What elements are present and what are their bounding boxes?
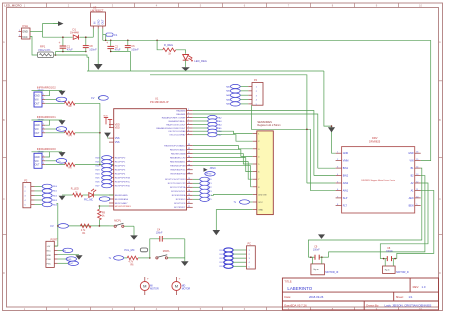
svg-text:MOTOR: MOTOR [182, 289, 191, 291]
svg-text:16: 16 [188, 182, 190, 184]
ground R_LED [59, 196, 66, 201]
svg-text:+: + [106, 41, 108, 45]
svg-text:RD6/PSP6/P1C: RD6/PSP6/P1C [115, 182, 131, 184]
wire driver AIN2 [307, 182, 336, 184]
switch MCPL1 [110, 220, 135, 236]
svg-text:RD3/PSP3: RD3/PSP3 [115, 170, 126, 172]
svg-text:2: 2 [188, 109, 189, 111]
svg-text:22: 22 [188, 206, 190, 208]
sensor output bus vertical [99, 103, 114, 165]
connector SENSORES [253, 120, 281, 215]
net flag 7v pulmc [109, 256, 128, 260]
svg-text:DRV8825 Stepper Motor Driver C: DRV8825 Stepper Motor Driver Carrie [361, 179, 396, 182]
svg-text:15: 15 [188, 178, 190, 180]
svg-text:RC6/TX/CK: RC6/TX/CK [174, 203, 186, 205]
svg-text:RC1/T1OSI/CCP2: RC1/T1OSI/CCP2 [168, 183, 187, 185]
svg-text:OUT: OUT [35, 133, 40, 135]
svg-text:RB6/KBI2/PGC: RB6/KBI2/PGC [171, 170, 186, 172]
svg-text:MOTOR: MOTOR [150, 289, 159, 291]
wire MCLR pulldown row [69, 225, 110, 227]
LED D_ON [89, 189, 114, 198]
svg-text:1: 1 [25, 187, 26, 189]
svg-text:OUT: OUT [35, 165, 40, 167]
driver U2 body [342, 147, 415, 213]
svg-text:RC5/SDO: RC5/SDO [176, 199, 186, 201]
svg-text:P2: P2 [24, 178, 28, 182]
svg-text:5: 5 [25, 205, 26, 207]
svg-text:12: 12 [416, 182, 418, 184]
svg-text:OSC2/CLKO/RA6: OSC2/CLKO/RA6 [168, 130, 186, 133]
wire RP1 to ground rail [54, 54, 89, 71]
svg-text:JPGC: JPGC [210, 167, 217, 170]
net flag PGD [58, 257, 77, 261]
svg-text:RE2/CS/AN7: RE2/CS/AN7 [115, 202, 129, 205]
net flag 7v sensores [234, 200, 253, 204]
resistor R1 [80, 224, 91, 235]
svg-text:1: 1 [43, 155, 44, 157]
svg-text:LABERINTO: LABERINTO [287, 286, 312, 291]
svg-text:AIN1: AIN1 [343, 189, 349, 192]
ground PORT [58, 255, 83, 260]
wires MCU ports to SENSORES [193, 131, 253, 187]
node P2 flags [35, 184, 58, 207]
svg-text:1: 1 [43, 124, 44, 126]
svg-text:RA0/AN0: RA0/AN0 [176, 109, 186, 112]
svg-text:BIN2: BIN2 [343, 175, 349, 178]
svg-text:1: 1 [249, 250, 250, 252]
svg-text:MCPL: MCPL [163, 250, 171, 253]
svg-text:PC: PC [248, 243, 252, 246]
svg-text:RD4/PSP4: RD4/PSP4 [115, 174, 126, 176]
svg-text:FV: FV [51, 225, 55, 228]
svg-text:RA3/AN3/VREF+: RA3/AN3/VREF+ [169, 120, 187, 123]
svg-text:PUL_MC: PUL_MC [124, 249, 134, 252]
svg-text:R_REG: R_REG [164, 43, 173, 47]
svg-text:Date:: Date: [284, 295, 291, 299]
svg-text:VMM: VMM [343, 160, 349, 163]
svg-text:PGD: PGD [47, 259, 52, 261]
svg-text:27: 27 [188, 168, 190, 170]
svg-text:2: 2 [19, 35, 20, 37]
svg-text:100nF: 100nF [313, 249, 320, 252]
svg-text:GND: GND [408, 152, 414, 155]
connector PC [247, 243, 256, 269]
svg-text:FLT: FLT [343, 204, 348, 207]
svg-text:OSC1/CLKI/RA7: OSC1/CLKI/RA7 [169, 134, 186, 137]
svg-text:MI: MI [150, 286, 153, 288]
svg-text:RB0/INT0/FLT0/AN12: RB0/INT0/FLT0/AN12 [164, 144, 186, 147]
svg-text:R_LED: R_LED [71, 188, 79, 191]
svg-text:31: 31 [188, 152, 190, 154]
capacitor C9 100nF [308, 246, 328, 260]
capacitor C6 100nF [125, 40, 139, 51]
svg-text:IN: IN [94, 21, 97, 24]
net flag FV port [58, 248, 73, 252]
LED LED_REG [183, 55, 207, 64]
svg-text:RE0/RD/AN5: RE0/RD/AN5 [115, 194, 129, 197]
svg-text:Drawn By:: Drawn By: [366, 304, 379, 308]
svg-text:5: 5 [256, 104, 257, 106]
svg-text:GND: GND [35, 157, 40, 159]
svg-text:GND: GND [22, 31, 28, 34]
svg-text:VCC: VCC [22, 36, 27, 39]
svg-text:GND: GND [98, 19, 101, 25]
svg-text:9: 9 [416, 204, 417, 206]
connector MOTOR_D [383, 259, 409, 274]
svg-text:LED_MICRO: LED_MICRO [4, 3, 22, 7]
svg-text:16: 16 [416, 152, 418, 154]
svg-text:D: D [3, 271, 5, 275]
net flag JPGC [204, 167, 217, 172]
wire input rail [43, 36, 94, 38]
wire U3 GND down [97, 29, 99, 65]
driver U2 DRV8825 label [369, 136, 381, 143]
power flag VDD [103, 115, 112, 127]
MCU U1 body [114, 109, 187, 210]
wire driver A1 [397, 190, 434, 258]
capacitor C8 100nF [83, 36, 97, 52]
svg-text:7: 7 [337, 196, 338, 198]
ground MCPL1 [130, 235, 138, 239]
svg-text:100nF: 100nF [89, 47, 97, 51]
drawnby text [366, 304, 431, 308]
svg-text:P1A: P1A [23, 24, 29, 28]
svg-text:6: 6 [337, 189, 338, 191]
svg-text:MCPL: MCPL [114, 220, 122, 223]
resistor R9 [98, 206, 106, 226]
net flag FV sensor2 [91, 96, 108, 101]
connector MOTOR_IZ [311, 257, 339, 275]
net flag JPGD [205, 172, 215, 176]
svg-text:2: 2 [43, 127, 44, 129]
svg-text:M: M [143, 284, 146, 289]
svg-text:9: 9 [188, 133, 189, 135]
wire driver B1 [308, 168, 421, 257]
svg-text:AIN2: AIN2 [343, 182, 349, 185]
svg-text:RA4/T0CKI/C1OUT: RA4/T0CKI/C1OUT [166, 123, 186, 126]
svg-text:1: 1 [337, 152, 338, 154]
svg-text:SLP: SLP [343, 197, 348, 200]
svg-text:3: 3 [337, 167, 338, 169]
MCU port C pins [165, 178, 193, 209]
connector P2 [23, 178, 35, 207]
svg-text:21: 21 [188, 202, 190, 204]
diode D1 [70, 27, 79, 39]
svg-text:3: 3 [249, 258, 250, 260]
wire U3 IN [92, 29, 94, 38]
svg-text:Hy-m: Hy-m [314, 269, 319, 271]
svg-text:2018-09-26: 2018-09-26 [309, 295, 324, 299]
capacitor C8b 100nF [380, 247, 397, 261]
wire LED ON [211, 193, 253, 196]
svg-text:32: 32 [188, 148, 190, 150]
svg-text:2: 2 [25, 191, 26, 193]
svg-text:RB3/AN9/CCP2: RB3/AN9/CCP2 [170, 157, 186, 160]
svg-text:1: 1 [256, 87, 257, 89]
MCU port A pins [156, 109, 192, 137]
svg-text:8: 8 [337, 204, 338, 206]
svg-text:100nF: 100nF [131, 47, 139, 51]
svg-text:OUT: OUT [102, 19, 105, 25]
wire P2 to PORT [57, 204, 59, 247]
ground MCPL2 [181, 261, 189, 266]
net flag PGC [58, 261, 79, 265]
net flag FV mclr [51, 224, 69, 229]
svg-text:+: + [59, 41, 61, 45]
svg-text:C: C [439, 197, 441, 201]
svg-text:RC3/SCK/SCL: RC3/SCK/SCL [171, 191, 186, 193]
svg-text:1.0: 1.0 [422, 285, 426, 289]
svg-text:RC7/RX/DT: RC7/RX/DT [174, 207, 186, 209]
IR sensor module INFRARROJO0 [32, 147, 100, 170]
ground for regulator [94, 64, 103, 70]
svg-text:2: 2 [43, 98, 44, 100]
svg-text:JPGD: JPGD [206, 174, 212, 176]
wire MCLR [99, 205, 109, 207]
svg-text:C: C [3, 197, 5, 201]
ground motor rail [318, 234, 325, 239]
svg-text:RB7/KBI3/PGD: RB7/KBI3/PGD [171, 174, 186, 176]
svg-text:19: 19 [188, 194, 190, 196]
wire LED to ground [185, 60, 187, 67]
svg-text:A: A [439, 40, 441, 44]
svg-text:VDG/1.6%: VDG/1.6% [38, 48, 51, 52]
svg-text:2: 2 [249, 254, 250, 256]
varistor RP1 [38, 45, 54, 58]
wire driver B2 [329, 176, 425, 258]
svg-text:D: D [439, 271, 441, 275]
MCU power pins [109, 123, 120, 144]
sheet text [396, 295, 413, 299]
regulator U3 LM7805CT [91, 6, 106, 29]
svg-text:PGC: PGC [47, 263, 52, 265]
svg-text:14: 14 [416, 167, 418, 169]
node PC flags [219, 248, 246, 268]
svg-text:8: 8 [188, 130, 189, 132]
svg-text:LED ON: LED ON [258, 194, 267, 196]
net port arrow [53, 21, 64, 26]
svg-text:AEN: AEN [409, 197, 414, 200]
svg-text:VSS: VSS [115, 137, 120, 140]
svg-text:PIC_MC: PIC_MC [84, 199, 93, 202]
driver U2 pins [336, 152, 421, 208]
ground flag VSS [104, 133, 111, 139]
svg-text:3: 3 [188, 113, 189, 115]
svg-text:Lady, JEISON, CRISTIAN DENNISS: Lady, JEISON, CRISTIAN DENNISS [385, 304, 432, 308]
svg-text:RB4/KBI0/AN11: RB4/KBI0/AN11 [170, 161, 186, 164]
MCU MCLR pin [109, 206, 132, 208]
wire P1A VCC to RP1 [30, 37, 38, 56]
svg-text:RD5/PSP5/P1B: RD5/PSP5/P1B [115, 178, 131, 180]
svg-text:4: 4 [188, 116, 189, 118]
svg-text:15: 15 [416, 159, 418, 161]
svg-text:11: 11 [416, 189, 418, 191]
svg-text:1: 1 [43, 94, 44, 96]
svg-text:28: 28 [188, 164, 190, 166]
title block grid [282, 278, 438, 310]
svg-text:5: 5 [337, 182, 338, 184]
title text [284, 279, 312, 290]
svg-text:GND: GND [343, 152, 349, 155]
wire C2 C6 ground [110, 51, 131, 71]
node RA flags [193, 115, 223, 136]
svg-text:26: 26 [188, 172, 190, 174]
connector P4 [248, 79, 263, 106]
svg-text:M: M [175, 284, 178, 289]
net flag PIC_MC [84, 197, 110, 202]
svg-text:4: 4 [337, 174, 338, 176]
node RC flags [193, 177, 213, 201]
wire driver BIN2 [314, 175, 336, 177]
svg-text:VCC: VCC [258, 202, 263, 204]
svg-text:4: 4 [256, 100, 257, 102]
svg-text:RD2/PSP2: RD2/PSP2 [115, 166, 126, 168]
svg-text:VIN: VIN [35, 161, 39, 163]
MCU port B pins [164, 144, 192, 176]
svg-text:A: A [3, 40, 5, 44]
connector P1A [19, 24, 31, 39]
svg-text:U1: U1 [155, 97, 159, 101]
svg-text:1N4448: 1N4448 [70, 32, 79, 35]
svg-text:18: 18 [188, 190, 190, 192]
fuse F1 [103, 33, 118, 41]
svg-text:BIN1: BIN1 [343, 167, 349, 170]
svg-text:RC4/SDI/SDA: RC4/SDI/SDA [172, 194, 186, 197]
svg-text:MOTOR_IZ: MOTOR_IZ [325, 271, 338, 274]
svg-text:RC0/T1OSO/T13CKI: RC0/T1OSO/T13CKI [165, 179, 186, 181]
wire RA0 to driver [193, 111, 314, 176]
svg-text:GND: GND [47, 255, 52, 257]
svg-text:3: 3 [256, 95, 257, 97]
svg-text:2: 2 [43, 159, 44, 161]
svg-text:1: 1 [19, 30, 20, 32]
op-amp U1 label [150, 97, 169, 105]
svg-text:VDD: VDD [103, 115, 108, 117]
svg-text:VSS: VSS [115, 141, 120, 144]
svg-text:FV: FV [91, 97, 95, 100]
svg-text:MCLR/VPP/RE3: MCLR/VPP/RE3 [115, 206, 132, 208]
wire driver AIN1 [251, 105, 335, 190]
svg-text:DRV8825: DRV8825 [369, 139, 381, 143]
svg-text:29: 29 [188, 160, 190, 162]
wire U3 OUT to +5V rail [102, 29, 104, 41]
date text [284, 295, 323, 299]
IR sensor module INFRARROJO1 [32, 115, 100, 138]
svg-text:B: B [3, 118, 5, 122]
svg-text:LM7805CT: LM7805CT [91, 8, 104, 12]
svg-text:VIN: VIN [410, 160, 414, 163]
wire P1A GND to net arrow [30, 24, 58, 38]
wire driver BIN1 [318, 167, 336, 169]
svg-text:4: 4 [25, 200, 26, 202]
svg-text:VDD: VDD [115, 127, 120, 130]
svg-text:33: 33 [188, 144, 190, 146]
svg-text:RC2/CCP1/P1A: RC2/CCP1/P1A [170, 186, 186, 189]
svg-text:GND: GND [258, 210, 263, 212]
svg-text:2: 2 [337, 159, 338, 161]
easyeda text [284, 304, 307, 308]
svg-text:3: 3 [43, 131, 44, 133]
svg-text:GND: GND [35, 125, 40, 127]
IR sensor module INFRARROJO2 [32, 86, 100, 109]
svg-text:PGD: PGD [67, 259, 72, 261]
wire gnd to driver [324, 71, 336, 153]
wire PORT pin1 [54, 245, 58, 247]
wire VIN from rail [421, 40, 431, 160]
svg-text:3: 3 [25, 196, 26, 198]
label PUL_MC [124, 248, 147, 252]
svg-text:BEN: BEN [409, 204, 414, 207]
svg-text:EasyEDA V5 7.26: EasyEDA V5 7.26 [284, 304, 307, 308]
svg-text:RE1/WR/AN6: RE1/WR/AN6 [115, 198, 129, 201]
svg-text:6: 6 [188, 123, 189, 125]
resistor R_LED [62, 188, 88, 197]
svg-text:+: + [179, 277, 181, 281]
resistor R5 [127, 256, 150, 266]
node P4 flags [226, 84, 248, 106]
svg-text:RD7/PSP7/P1D: RD7/PSP7/P1D [115, 186, 131, 188]
svg-text:5: 5 [188, 120, 189, 122]
svg-text:PGC: PGC [69, 263, 74, 265]
svg-text:7: 7 [188, 127, 189, 129]
svg-text:20: 20 [188, 198, 190, 200]
svg-text:LED_REG: LED_REG [194, 59, 207, 63]
ground rail 1 [87, 70, 324, 72]
svg-text:1/1: 1/1 [409, 295, 413, 299]
motor MD [172, 277, 191, 296]
svg-text:10: 10 [416, 196, 418, 198]
svg-text:+: + [147, 277, 149, 281]
MCU port D pins [109, 158, 131, 188]
MCU port E pins [109, 194, 129, 205]
ground SENSORES [213, 210, 253, 236]
ground driver [328, 127, 335, 132]
sheet name LED_MICRO [4, 3, 22, 7]
svg-text:13: 13 [416, 174, 418, 176]
ground for LED_REG [181, 67, 189, 71]
wire cap ground segment [56, 51, 86, 55]
svg-text:MOTOR_D: MOTOR_D [396, 271, 409, 274]
wire R_REG to LED [176, 50, 186, 54]
svg-text:VIN: VIN [35, 129, 39, 131]
svg-text:2: 2 [256, 91, 257, 93]
capacitor C4 100nF [150, 229, 185, 258]
svg-text:B: B [439, 118, 441, 122]
svg-text:DRV: DRV [372, 136, 378, 140]
svg-text:PORT: PORT [51, 238, 58, 241]
svg-text:4: 4 [249, 262, 250, 264]
capacitor C2 47uF [106, 40, 121, 51]
svg-text:RA5/AN4/SS/HLVDIN/C2OUT: RA5/AN4/SS/HLVDIN/C2OUT [156, 127, 186, 130]
svg-text:RA2/AN2/VREF-CVREF: RA2/AN2/VREF-CVREF [162, 116, 186, 119]
svg-text:30: 30 [188, 156, 190, 158]
svg-text:REV:: REV: [413, 285, 420, 289]
node RD flags [95, 156, 112, 188]
ground rail 2 [150, 75, 307, 183]
wire RA1 to driver [193, 114, 318, 168]
svg-text:MD: MD [182, 286, 186, 288]
connector PORT [46, 238, 58, 267]
svg-text:Sheet:: Sheet: [396, 295, 404, 299]
svg-text:RD1/PSP1: RD1/PSP1 [115, 162, 126, 164]
svg-text:5: 5 [249, 266, 250, 268]
svg-text:100nF: 100nF [156, 232, 163, 235]
capacitor C1 47uF [59, 36, 74, 51]
svg-text:OUT: OUT [35, 103, 40, 105]
svg-text:RB1/INT1/AN10: RB1/INT1/AN10 [170, 148, 186, 151]
svg-text:PIC18F4620-IP: PIC18F4620-IP [150, 100, 169, 104]
switch MCPL2 [156, 239, 185, 261]
